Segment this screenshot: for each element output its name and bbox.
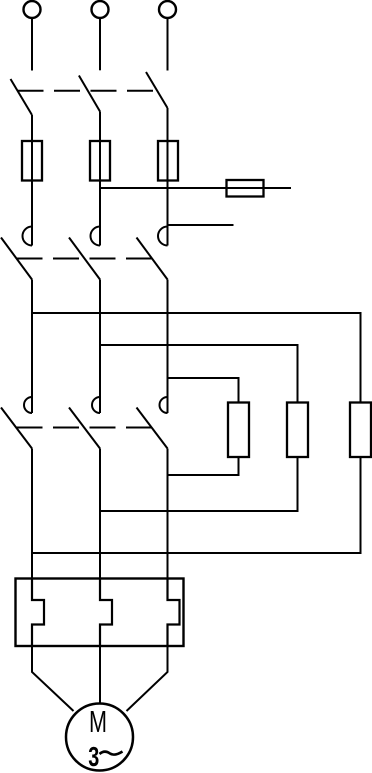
wire R1 bottom to phase3 xyxy=(168,457,239,475)
fuse FU1 pole 1 xyxy=(22,141,42,181)
fuse FU1 pole 3 xyxy=(158,141,178,181)
wire resistor feed phase3 to R1 top xyxy=(168,378,239,403)
wire phase2 KM2 to FR xyxy=(99,449,101,581)
wire FR to motor right xyxy=(127,646,168,711)
fuse FU2 (control circuit) xyxy=(227,180,264,197)
wire control tap from phase 3 xyxy=(168,224,234,226)
wire L2 drop xyxy=(99,18,101,70)
contactor KM2 pole 1 xyxy=(1,397,32,449)
wire L1 drop xyxy=(31,18,33,71)
wire phase1 KM2 to FR xyxy=(31,449,33,581)
contactor KM2 pole 2 xyxy=(69,397,100,449)
terminal L1 xyxy=(24,1,41,18)
resistor R3 xyxy=(350,403,371,458)
thermal relay FR heater element 3 xyxy=(168,579,180,646)
contactor KM1 pole 2 xyxy=(69,227,100,280)
resistor R1 xyxy=(228,403,249,458)
svg-text:M: M xyxy=(89,704,107,739)
terminal L2 xyxy=(92,1,109,18)
disconnector QS pole 2 blade xyxy=(79,76,100,112)
motor label tilde xyxy=(100,752,123,755)
disconnector QS pole 3 blade xyxy=(146,72,168,108)
wire R2 bottom to phase2 xyxy=(100,457,298,511)
disconnector QS pole 1 blade xyxy=(11,79,33,115)
thermal relay FR heater element 2 xyxy=(100,579,112,646)
contactor KM2 pole 3 xyxy=(137,397,168,449)
wire phase3 QS to KM1 xyxy=(167,108,169,246)
wire phase3 KM2 to FR xyxy=(167,449,169,581)
motor M circle xyxy=(66,704,133,771)
contactor KM2 linkage (dashed) xyxy=(17,427,153,429)
terminal L3 xyxy=(159,1,176,18)
thermal relay FR heater element 1 xyxy=(32,579,44,646)
contactor KM1 pole 3 xyxy=(137,227,168,280)
wire resistor feed phase1 to R3 top xyxy=(32,313,361,403)
disconnector QS linkage (dashed) xyxy=(18,90,154,92)
wire phase1 QS to KM1 xyxy=(31,115,33,246)
wire FR to motor left xyxy=(32,646,74,711)
wire R3 bottom to phase1 xyxy=(32,457,361,553)
contactor KM1 linkage (dashed) xyxy=(17,258,153,260)
wire phase1 KM1 to KM2 xyxy=(31,280,33,414)
wire L3 drop xyxy=(167,18,169,71)
wire phase2 KM1 to KM2 xyxy=(99,280,101,414)
fuse FU1 pole 2 xyxy=(90,141,110,181)
wire phase3 KM1 to KM2 xyxy=(167,280,169,414)
thermal relay FR box xyxy=(16,579,184,647)
wire resistor feed phase2 to R2 top xyxy=(100,345,298,403)
svg-text:3: 3 xyxy=(88,741,99,772)
wire phase2 QS to KM1 xyxy=(99,112,101,246)
contactor KM1 pole 1 xyxy=(1,227,32,280)
wire control tap from phase 2 xyxy=(100,187,291,189)
wire FR to motor middle xyxy=(99,646,101,704)
resistor R2 xyxy=(287,403,308,458)
